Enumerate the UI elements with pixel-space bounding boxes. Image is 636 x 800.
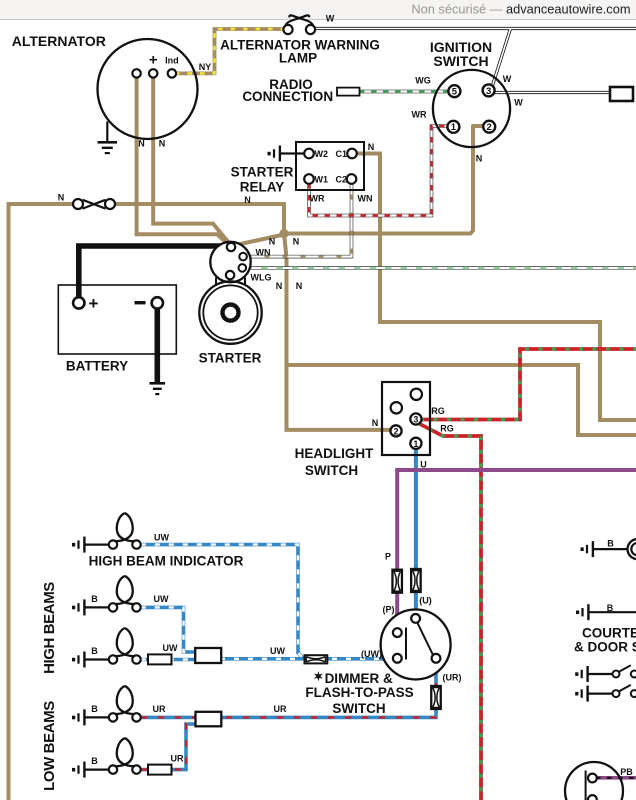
svg-text:COURTESY: COURTESY <box>582 626 636 641</box>
wire UR low beam lamp 2 <box>141 724 197 770</box>
courtesy lamp 2 ground <box>576 611 579 615</box>
svg-text:W: W <box>326 14 335 24</box>
svg-text:N: N <box>476 154 483 164</box>
high beam lamp 1 <box>117 576 135 604</box>
svg-text:3: 3 <box>413 415 418 425</box>
door switch 2 ground <box>575 692 578 696</box>
wire UR low beams to dimmer switch <box>141 661 436 717</box>
svg-text:SWITCH: SWITCH <box>305 463 358 478</box>
svg-text:P: P <box>385 552 391 562</box>
svg-text:N: N <box>296 281 303 291</box>
connector U <box>411 569 421 592</box>
headlight switch pin 3 <box>410 413 421 424</box>
headlight switch hole left <box>391 402 402 413</box>
wire N alternator pin1 to starter solenoid <box>137 75 230 246</box>
low beam lamp 2 connector <box>148 765 172 775</box>
svg-text:RG: RG <box>431 406 445 416</box>
bowtie connector UW <box>305 655 328 663</box>
svg-text:DIMMER &: DIMMER & <box>325 671 393 686</box>
high beam lamp 2 ground <box>72 658 75 662</box>
wire UW high beam lamp 1 <box>141 607 196 652</box>
svg-text:N: N <box>276 281 283 291</box>
svg-text:2: 2 <box>393 426 398 436</box>
svg-text:UW: UW <box>154 533 169 543</box>
junction node N <box>279 229 288 238</box>
battery positive terminal <box>73 297 84 308</box>
svg-text:& DOOR SWITCHES: & DOOR SWITCHES <box>574 640 636 655</box>
wire B battery positive to starter solenoid <box>79 246 228 300</box>
svg-text:B: B <box>607 603 614 613</box>
svg-text:Ind: Ind <box>165 56 179 66</box>
svg-text:(UW): (UW) <box>361 649 382 659</box>
door switch 1 <box>613 671 620 678</box>
svg-text:W: W <box>514 98 523 108</box>
dimmer pin UW <box>393 654 402 663</box>
low beam lamp 1 <box>117 686 135 714</box>
svg-text:UW: UW <box>270 646 285 656</box>
svg-text:Non sécurisé —: Non sécurisé — <box>411 2 506 17</box>
svg-text:N: N <box>159 139 166 149</box>
svg-text:WR: WR <box>412 110 427 120</box>
wire UW high beam indicator <box>141 545 304 659</box>
svg-text:LAMP: LAMP <box>279 50 317 65</box>
svg-text:(U): (U) <box>419 596 432 606</box>
svg-text:SWITCH: SWITCH <box>332 701 385 716</box>
high beam lamp 1 ground <box>72 606 75 610</box>
svg-text:WG: WG <box>415 76 431 86</box>
svg-text:HEADLIGHT: HEADLIGHT <box>295 446 374 461</box>
svg-text:3: 3 <box>486 86 491 97</box>
svg-text:WLG: WLG <box>251 273 272 283</box>
dimmer pin UR <box>432 654 441 663</box>
svg-text:B: B <box>607 539 614 549</box>
connector at right edge <box>610 87 633 101</box>
ignition switch pin 1 <box>447 121 459 133</box>
wire RG headlight pin 3 to right edge <box>420 349 636 420</box>
svg-text:advanceautowire.com: advanceautowire.com <box>506 2 630 17</box>
high beam lamp 2 <box>117 628 135 656</box>
svg-text:N: N <box>372 418 379 428</box>
svg-text:+: + <box>149 52 158 69</box>
svg-text:1: 1 <box>451 122 457 133</box>
svg-text:N: N <box>293 237 300 247</box>
wire N from fuse to junction node <box>9 204 74 800</box>
headlight switch pin 2 <box>390 425 401 436</box>
headlight switch box <box>382 382 430 455</box>
svg-text:W2: W2 <box>315 149 329 159</box>
svg-text:N: N <box>138 139 145 149</box>
svg-text:N: N <box>368 142 375 152</box>
wire PB interior lamp to right edge <box>596 776 636 780</box>
dimmer switch body <box>381 610 451 680</box>
low beam lamp 1 ground <box>72 716 75 720</box>
svg-text:ALTERNATOR: ALTERNATOR <box>12 33 106 49</box>
low beam lamp 2 ground <box>72 768 75 772</box>
svg-text:FLASH-TO-PASS: FLASH-TO-PASS <box>305 685 413 700</box>
svg-text:RG: RG <box>440 424 454 434</box>
svg-text:U: U <box>420 460 427 470</box>
starter relay box <box>296 142 364 190</box>
alternator pin Ind <box>168 69 176 77</box>
wire P right edge to dimmer switch <box>397 470 636 630</box>
wire B battery negative to ground <box>155 306 161 382</box>
wire N alternator pin2 to starter solenoid <box>153 75 229 244</box>
low beams connector box <box>196 712 222 727</box>
high beams connector box <box>195 648 221 663</box>
courtesy lamp 1 ground <box>581 547 584 551</box>
wire N ignition switch pin 2 to junction <box>284 126 485 234</box>
dimmer pin U <box>411 614 420 623</box>
starter motor <box>199 281 261 343</box>
alternator warning lamp <box>285 15 309 25</box>
interior lamp chord <box>585 771 587 800</box>
door switch 2 <box>613 690 620 697</box>
svg-text:HIGH BEAMS: HIGH BEAMS <box>41 582 58 674</box>
interior lamp pin 2 <box>588 795 597 800</box>
starter relay pin C2 <box>347 174 357 184</box>
high beam indicator ground <box>72 543 75 547</box>
door switch 1 ground <box>575 672 578 676</box>
solenoid pin WN <box>239 253 247 261</box>
svg-text:B: B <box>91 756 98 766</box>
svg-text:UW: UW <box>154 594 169 604</box>
alternator pin 2 plus <box>149 69 157 77</box>
svg-text:WR: WR <box>310 194 325 204</box>
wire UW to dimmer switch <box>220 657 392 661</box>
high beam indicator lamp <box>117 513 135 541</box>
svg-text:NY: NY <box>199 62 212 72</box>
fuse <box>83 200 106 209</box>
solenoid pin lower <box>226 271 234 279</box>
svg-text:C1: C1 <box>335 149 347 159</box>
low beam lamp 2 <box>117 738 135 766</box>
wire U headlight pin 1 to dimmer switch <box>414 446 418 618</box>
high beam lamp 2 connector <box>148 654 172 664</box>
wire N junction down to headlight switch pin 2 <box>284 233 391 430</box>
svg-text:STARTER: STARTER <box>231 165 294 180</box>
wire WLG starter solenoid to right edge <box>246 266 636 270</box>
solenoid pin WLG <box>239 264 247 272</box>
svg-text:WN: WN <box>358 194 373 204</box>
svg-text:2: 2 <box>487 122 492 133</box>
solenoid pin battery <box>227 243 235 251</box>
ignition switch body <box>433 70 510 147</box>
svg-text:RELAY: RELAY <box>240 180 285 195</box>
svg-text:+: + <box>89 294 99 313</box>
battery box <box>58 285 176 354</box>
svg-text:(UR): (UR) <box>443 673 462 683</box>
wire WN starter solenoid to starter relay C2 <box>247 183 352 257</box>
svg-text:PB: PB <box>620 767 633 777</box>
wire N branch to right edge <box>287 365 636 435</box>
svg-text:WN: WN <box>256 248 271 258</box>
svg-text:UW: UW <box>163 643 178 653</box>
wire W warning lamp to right edge with branch to ignition pin 3 <box>314 29 636 93</box>
starter relay ground <box>268 152 271 156</box>
starter solenoid <box>210 242 250 282</box>
alternator ground <box>106 122 108 142</box>
battery negative terminal <box>152 297 163 308</box>
svg-text:SWITCH: SWITCH <box>433 53 488 69</box>
svg-text:W: W <box>503 74 512 84</box>
ignition switch pin 2 <box>483 121 495 133</box>
wire WR starter relay W1 to ignition switch pin 1 <box>309 126 450 216</box>
dimmer pin P <box>393 628 402 637</box>
connector P <box>392 570 402 593</box>
svg-text:1: 1 <box>413 439 418 449</box>
starter relay pin C1 <box>347 149 357 159</box>
battery ground <box>150 382 166 385</box>
starter relay pin W2 <box>304 149 314 159</box>
svg-text:HIGH BEAM INDICATOR: HIGH BEAM INDICATOR <box>89 554 244 569</box>
wire UW high beam lamp 2 <box>141 658 196 662</box>
svg-text:N: N <box>58 193 65 203</box>
svg-text:UR: UR <box>153 704 166 714</box>
wire N junction to starter solenoid <box>234 235 285 246</box>
svg-text:STARTER: STARTER <box>199 351 262 366</box>
dimmer switch label <box>314 671 323 681</box>
svg-text:W1: W1 <box>315 174 329 184</box>
svg-text:UR: UR <box>274 704 287 714</box>
svg-text:B: B <box>91 646 98 656</box>
dimmer contact bar <box>405 628 407 660</box>
ignition switch pin 5 <box>448 85 460 97</box>
svg-text:5: 5 <box>452 87 458 98</box>
wire RG headlight pin 3 down right side <box>417 423 481 800</box>
wire N starter relay C1 to right edge <box>355 154 636 421</box>
dimmer contact lever <box>418 623 434 656</box>
svg-text:B: B <box>91 704 98 714</box>
svg-text:LOW BEAMS: LOW BEAMS <box>41 701 58 791</box>
solenoid bracket <box>215 278 217 285</box>
svg-text:B: B <box>91 594 98 604</box>
wire NY alternator Ind to warning lamp <box>175 29 284 73</box>
svg-text:N: N <box>269 237 276 247</box>
svg-text:C2: C2 <box>335 174 347 184</box>
svg-text:(P): (P) <box>383 605 395 615</box>
courtesy lamp 1 <box>628 539 636 559</box>
ignition switch pin 3 <box>483 84 495 96</box>
headlight switch pin 1 <box>410 438 421 449</box>
starter relay pin W1 <box>304 174 314 184</box>
svg-text:CONNECTION: CONNECTION <box>242 89 333 104</box>
browser chrome bar <box>0 0 636 19</box>
radio connector <box>337 88 360 96</box>
headlight switch hole top <box>411 389 422 400</box>
connector UR <box>431 686 441 709</box>
interior lamp body <box>565 762 623 800</box>
svg-text:BATTERY: BATTERY <box>66 359 128 374</box>
alternator body <box>98 39 198 139</box>
wire WG radio connector to ignition switch pin 5 <box>359 90 450 94</box>
svg-text:UR: UR <box>171 754 184 764</box>
svg-text:N: N <box>244 195 251 205</box>
interior lamp pin 1 <box>588 774 597 783</box>
alternator pin 1 <box>132 69 140 77</box>
